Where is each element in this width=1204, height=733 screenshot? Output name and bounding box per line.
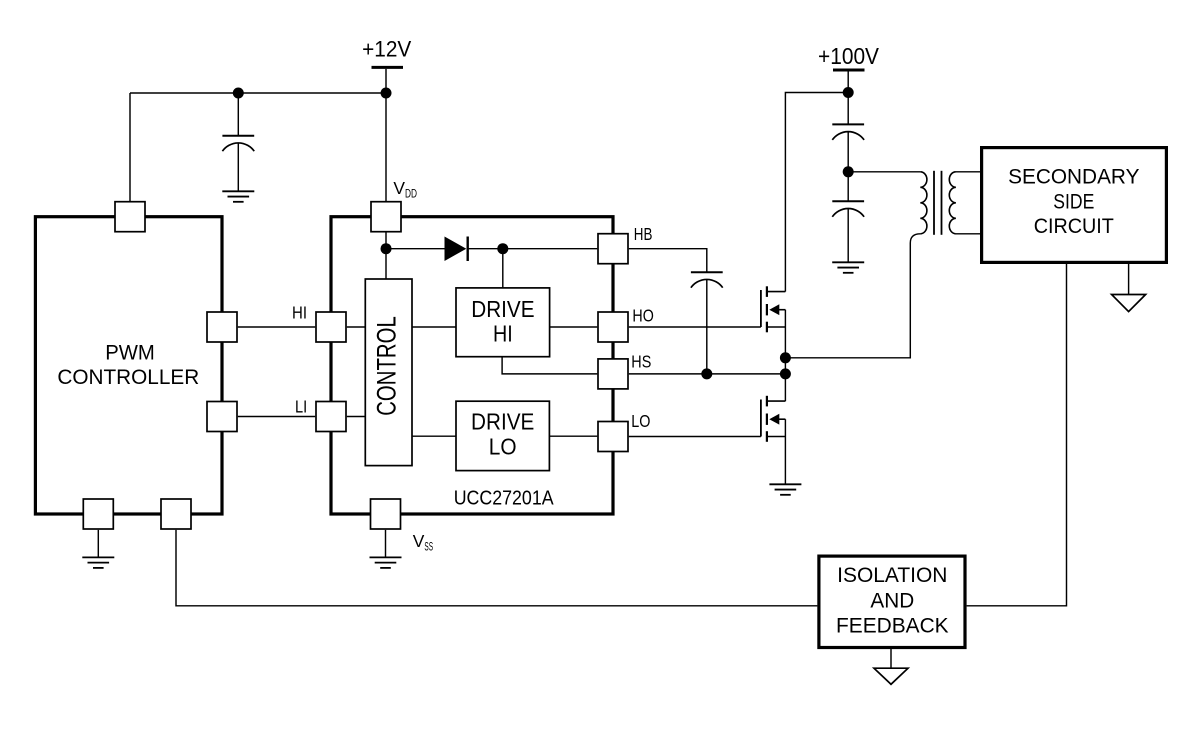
svg-text:SIDE: SIDE [1053,190,1094,213]
wire HS node [629,373,786,375]
wire VDD node to diode anode [386,248,445,250]
svg-text:+100V: +100V [818,43,880,69]
svg-text:HO: HO [632,305,653,325]
pin UCC HB [598,234,628,264]
capacitor C1 [222,93,254,191]
secondary side circuit block [982,148,1167,263]
wire VDD pin to CONTROL top [385,232,387,279]
transformer T1 primary winding [920,172,927,234]
ground below C1 [222,191,254,202]
CONTROL block [365,279,412,466]
svg-text:VSS: VSS [413,531,433,554]
UCC27201A block [331,217,613,514]
junction bootstrap node [497,243,508,254]
svg-text:CONTROLLER: CONTROLLER [57,364,199,389]
pin PWM FB [161,499,191,529]
svg-text:HB: HB [634,224,653,244]
pin PWM LI output [207,402,237,432]
junction capacitor midpoint to transformer [843,166,854,177]
wire CONTROL to DRIVE LO [412,435,456,437]
wire LO to Q2 gate [629,436,761,438]
wire DRIVE HI to HS pin [502,357,597,374]
svg-text:ISOLATION: ISOLATION [837,564,947,587]
ground below Q2 [769,484,801,495]
wire LI [238,416,315,418]
wire HB to bootstrap cap [629,249,707,273]
wire secondary top lead [956,171,981,173]
wire secondary block to isolation block [967,264,1067,606]
wire DRIVE LO to LO pin [549,435,597,437]
svg-text:LI: LI [295,396,307,416]
ground below PWM GND pin [82,530,114,568]
svg-text:SECONDARY: SECONDARY [1008,166,1139,189]
supply +100V [818,43,880,70]
capacitor C3 [832,124,864,201]
ground below C4 [832,262,864,273]
MOSFET Q2 low-side [761,396,786,442]
pin UCC HO [598,312,628,342]
pin UCC HS [598,359,628,389]
wire PWM FB pin to isolation block [176,530,817,606]
junction bootstrap cap to HS [701,368,712,379]
pin UCC HI input [316,312,346,342]
wire Q1 source to Q2 drain [784,310,786,402]
svg-text:PWM: PWM [105,339,155,364]
capacitor C2 bootstrap [691,272,723,374]
wire secondary bottom lead [956,233,981,235]
svg-text:AND: AND [870,590,914,613]
wire +100V bar to C3 [847,72,849,125]
svg-text:UCC27201A: UCC27201A [454,487,554,509]
junction VDD node [381,243,392,254]
svg-text:DRIVE: DRIVE [471,408,534,434]
chassis ground below secondary block [1112,295,1146,312]
wire HO to Q1 gate [629,326,761,328]
wire HI [238,326,315,328]
wire VSS to ground [385,530,387,558]
wire isolation block to chassis ground [890,649,892,668]
svg-text:HI: HI [292,303,307,323]
wire UCC HI pin to CONTROL [347,326,366,328]
svg-text:CIRCUIT: CIRCUIT [1034,215,1114,238]
wire +12V rail [130,92,386,94]
wire capacitor midpoint to transformer primary [848,171,920,173]
pin PWM GND [83,499,113,529]
pin UCC VSS [371,499,401,529]
svg-text:LO: LO [631,411,650,431]
svg-text:HS: HS [631,351,651,371]
ground below VSS [370,557,402,568]
svg-text:DRIVE: DRIVE [471,296,534,322]
pin PWM VDD top [115,202,145,232]
MOSFET Q1 high-side [761,286,786,332]
diode D1 bootstrap [445,237,468,262]
junction half-bridge to HS [780,368,791,379]
svg-text:CONTROL: CONTROL [372,316,402,416]
pin UCC LO [598,422,628,452]
wire Q1 drain to +100V [785,93,848,292]
junction decoupling cap tap [233,88,244,99]
wire secondary block to chassis ground [1128,264,1130,295]
wire DRIVE HI to HO pin [550,326,598,328]
wire Q2 source to ground [784,419,786,484]
svg-text:FEEDBACK: FEEDBACK [836,614,949,637]
isolation and feedback block [819,556,965,647]
svg-text:+12V: +12V [362,37,411,62]
svg-text:VDD: VDD [393,178,417,201]
supply +12V [362,37,411,68]
svg-text:LO: LO [489,434,517,460]
wire rail down to PWM top pin [129,93,131,201]
wire CONTROL to DRIVE HI [412,326,456,328]
transformer T1 core [934,171,942,235]
junction +100V node [843,87,854,98]
pin PWM HI output [207,312,237,342]
wire diode cathode to HB pin [468,248,598,250]
wire transformer primary return to half-bridge [785,234,920,358]
svg-text:HI: HI [493,320,513,346]
pin UCC LI input [316,402,346,432]
capacitor C4 [832,201,864,262]
wire bootstrap node to DRIVE HI top [502,249,504,288]
pin UCC VDD [371,202,401,232]
wire UCC LI pin to CONTROL [347,416,366,418]
chassis ground below isolation block [874,668,908,684]
transformer T1 secondary winding [949,172,956,234]
DRIVE LO block [456,401,549,470]
junction half-bridge to transformer [780,352,791,363]
wire +12V bar to VDD pin [385,69,387,201]
DRIVE HI block [456,288,550,357]
junction +12V at VDD drop [381,88,392,99]
PWM controller block [35,217,222,514]
